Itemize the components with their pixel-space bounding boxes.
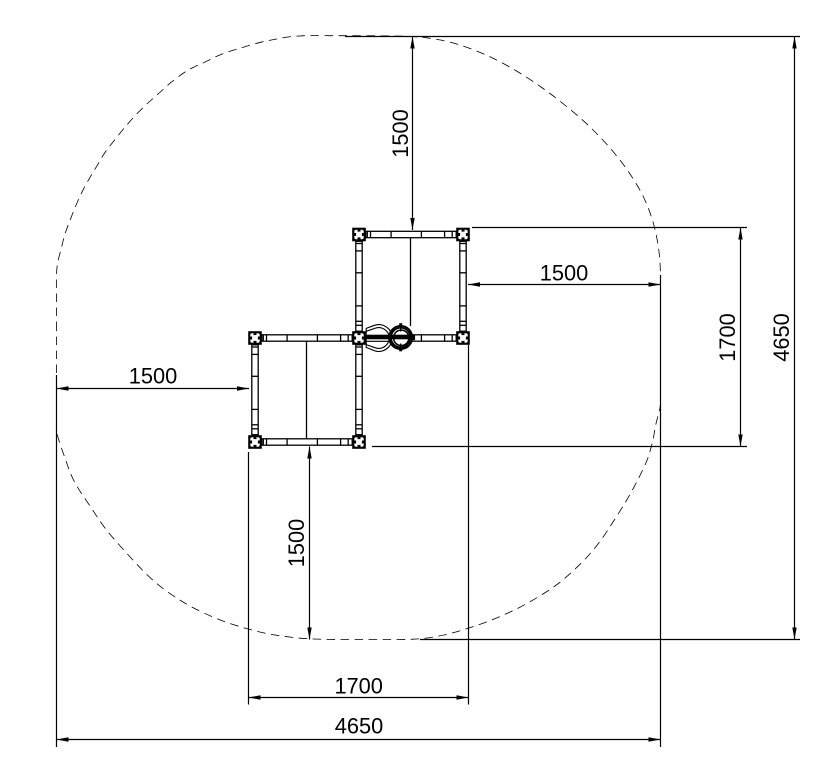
post upper-left	[352, 228, 366, 242]
extension line right tangent vertical	[660, 275, 662, 747]
lower square top rail	[262, 335, 352, 341]
svg-text:1700: 1700	[715, 313, 740, 362]
post upper-right	[456, 228, 470, 242]
svg-text:1500: 1500	[540, 261, 589, 286]
post mid-left	[248, 331, 262, 345]
dimension right 1700 vertical	[715, 228, 743, 447]
post lower-left	[248, 435, 262, 449]
steering wheel handle teardrop outer	[366, 325, 392, 352]
dimension bottom 4650 horizontal	[57, 714, 661, 742]
post center shared	[352, 331, 366, 345]
extension line upper square right vertical	[468, 345, 470, 705]
svg-text:4650: 4650	[769, 313, 794, 362]
post lower-right	[352, 435, 366, 449]
wheel bottom tab	[399, 349, 402, 352]
upper square left rail	[356, 241, 362, 331]
lower square divider line	[306, 341, 308, 439]
steering wheel handle teardrop inner	[366, 328, 389, 349]
extension line lower square bottom right	[372, 446, 747, 448]
wheel inner circle	[394, 330, 409, 345]
extension line bottom tangent	[420, 639, 800, 641]
svg-text:1500: 1500	[388, 109, 413, 158]
lower square right rail	[356, 345, 362, 435]
steering wheel blank disc	[388, 325, 413, 350]
dimension top 1500 vertical	[388, 37, 415, 231]
svg-text:1700: 1700	[334, 674, 383, 699]
wheel axle bar	[366, 335, 415, 340]
wheel top tab	[399, 323, 402, 326]
wheel second ring	[391, 328, 410, 347]
extension line lower square bottom-left vertical	[248, 452, 250, 705]
lower square left rail	[252, 345, 258, 435]
lower square bottom rail	[262, 439, 352, 445]
upper square right rail	[460, 241, 466, 331]
svg-text:1500: 1500	[129, 364, 178, 389]
dimension bottom 1500 vertical	[284, 447, 312, 640]
extension line left tangent vertical	[56, 375, 58, 747]
dimension left 1500 horizontal	[57, 364, 250, 391]
upper square bottom rail	[366, 335, 456, 341]
rail edge line through handle	[366, 340, 390, 342]
wheel spoke bottom	[400, 344, 402, 351]
upper square top rail	[366, 231, 456, 237]
dimension right 1500 horizontal	[468, 261, 661, 287]
extension line top tangent	[345, 36, 800, 38]
svg-text:4650: 4650	[335, 714, 384, 739]
upper square divider line	[410, 238, 412, 326]
safety zone dashed outline	[56, 36, 660, 640]
extension line upper square top right	[472, 227, 747, 229]
dimension bottom 1700 horizontal	[249, 674, 469, 700]
wheel outer ring	[389, 326, 412, 349]
wheel spoke top	[400, 325, 402, 332]
svg-text:1500: 1500	[284, 519, 309, 568]
dimension right 4650 vertical	[769, 37, 797, 640]
post mid-right	[456, 331, 470, 345]
axle end tab	[413, 335, 415, 340]
